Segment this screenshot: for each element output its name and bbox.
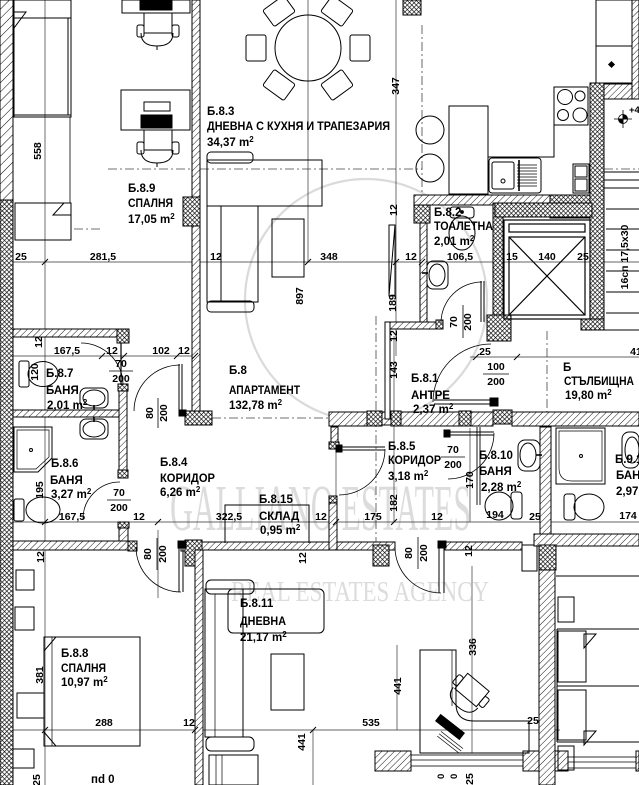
bath middle wall y410 bbox=[13, 410, 119, 417]
svg-text:167,5: 167,5 bbox=[54, 345, 80, 357]
svg-text:Б.8.6: Б.8.6 bbox=[51, 458, 78, 470]
svg-text:200: 200 bbox=[112, 373, 130, 385]
line under B9 bath bbox=[556, 575, 639, 577]
svg-text:535: 535 bbox=[362, 717, 380, 729]
dim row 3 y522 bbox=[0, 521, 639, 523]
svg-text:Б.8.8: Б.8.8 bbox=[61, 648, 89, 660]
monitor bottom-right bbox=[436, 715, 465, 740]
dim vertical x397 (441 right) bbox=[396, 645, 398, 730]
pier at bedroom2 door bbox=[128, 541, 137, 551]
svg-text:70: 70 bbox=[447, 444, 459, 456]
svg-text:170: 170 bbox=[464, 471, 476, 489]
outer left wall (concrete, dark) bbox=[0, 200, 13, 785]
kitchen corner black C13 bbox=[550, 195, 604, 218]
svg-text:2,37 m2: 2,37 m2 bbox=[413, 402, 454, 416]
chair 2 bbox=[144, 130, 172, 150]
svg-text:16сп 17,5х30: 16сп 17,5х30 bbox=[619, 224, 631, 289]
radiator bbox=[389, 225, 395, 296]
svg-text:12: 12 bbox=[210, 251, 222, 263]
svg-text:12: 12 bbox=[405, 251, 417, 263]
svg-text:12: 12 bbox=[388, 204, 400, 216]
nightstands B.8.8 bbox=[15, 607, 34, 630]
svg-text:322,5: 322,5 bbox=[216, 511, 242, 523]
svg-text:12: 12 bbox=[463, 545, 475, 557]
svg-text:347: 347 bbox=[390, 77, 402, 95]
elevator left wall bbox=[493, 203, 503, 330]
dim row 2 y356 bbox=[0, 355, 200, 357]
svg-text:БАНЯ: БАНЯ bbox=[616, 470, 639, 482]
kitchen tall cabinet bbox=[449, 106, 488, 194]
svg-text:СТЪЛБИЩНА: СТЪЛБИЩНА bbox=[564, 376, 634, 388]
svg-text:19,80 m2: 19,80 m2 bbox=[565, 388, 612, 402]
svg-text:2,01 m2: 2,01 m2 bbox=[47, 398, 88, 412]
svg-text:41: 41 bbox=[630, 346, 639, 358]
bottom right window bbox=[568, 757, 636, 768]
axis line A4 (vertical x547) bbox=[546, 331, 548, 428]
svg-text:СПАЛНЯ: СПАЛНЯ bbox=[61, 663, 106, 675]
antre left thin wall bbox=[385, 322, 390, 419]
door D1 bedroom->bath B.8.7 bbox=[81, 343, 123, 385]
kitchen cabinet2 bbox=[573, 164, 589, 193]
elevator X box bbox=[509, 237, 585, 315]
svg-text:Б.8.5: Б.8.5 bbox=[388, 441, 416, 453]
svg-text:КОРИДОР: КОРИДОР bbox=[160, 473, 215, 485]
svg-text:ТОАЛЕТНА: ТОАЛЕТНА bbox=[434, 221, 493, 233]
svg-text:0,95 m2: 0,95 m2 bbox=[260, 523, 301, 537]
svg-text:БАНЯ: БАНЯ bbox=[50, 475, 83, 487]
sink B.8.2 bbox=[427, 261, 448, 289]
dim vertical x313 (441 left) bbox=[312, 730, 314, 785]
elevator bottom-left cap C11 bbox=[487, 315, 511, 341]
door D8 bedroom B.8.8 bbox=[178, 547, 180, 592]
elevator cab bbox=[504, 220, 590, 319]
dining table bbox=[275, 15, 341, 81]
corridor left wall x119 (segment 1) bbox=[119, 384, 127, 478]
svg-text:120: 120 bbox=[29, 363, 41, 381]
kitchen bottom wall y195 bbox=[414, 195, 604, 205]
svg-text:Б.8.11: Б.8.11 bbox=[240, 598, 274, 610]
svg-text:25: 25 bbox=[464, 773, 476, 785]
svg-text:195: 195 bbox=[34, 481, 46, 499]
corridor left wall x119 (segment 2, below door) bbox=[119, 522, 128, 550]
dim row 4 y730 bbox=[0, 729, 560, 731]
svg-text:25: 25 bbox=[479, 346, 491, 358]
svg-text:СКЛАД: СКЛАД bbox=[259, 511, 299, 523]
desk bottom-right room bbox=[420, 650, 529, 753]
svg-text:Б.8.9: Б.8.9 bbox=[128, 183, 155, 195]
livingroom2 top wall y542 (to skl wall) bbox=[202, 542, 329, 550]
svg-text:200: 200 bbox=[418, 544, 430, 562]
svg-text:12: 12 bbox=[133, 511, 145, 523]
toilet room top-left column C12 bbox=[414, 197, 430, 223]
svg-text:70: 70 bbox=[115, 358, 127, 370]
svg-text:0: 0 bbox=[449, 774, 460, 779]
svg-text:25: 25 bbox=[31, 774, 43, 785]
svg-text:106,5: 106,5 bbox=[447, 251, 473, 263]
svg-text:189: 189 bbox=[387, 294, 399, 312]
skl wall x329 bbox=[329, 496, 337, 550]
wall x539 bottom right vertical bbox=[539, 570, 555, 785]
svg-text:ДНЕВНА: ДНЕВНА bbox=[240, 616, 286, 628]
svg-text:200: 200 bbox=[110, 502, 128, 514]
axis line A1 (section, horizontal y169) bbox=[74, 25, 639, 552]
wardrobe bedroom1 bbox=[14, 0, 71, 117]
wall segment right of door D9 bbox=[445, 542, 522, 550]
svg-text:Б: Б bbox=[563, 362, 571, 374]
svg-text:21,17 m2: 21,17 m2 bbox=[240, 630, 287, 644]
column C2 (corridor corner) bbox=[185, 411, 212, 425]
bedroom bottom wall y329 bbox=[13, 329, 127, 337]
svg-text:441: 441 bbox=[296, 733, 308, 751]
svg-text:182: 182 bbox=[388, 494, 400, 512]
svg-text:288: 288 bbox=[95, 717, 113, 729]
svg-text:167,5: 167,5 bbox=[59, 511, 85, 523]
svg-text:12: 12 bbox=[315, 511, 327, 523]
outer left wall (brick hatch, top) bbox=[0, 0, 13, 200]
elevation mark +4 bbox=[614, 110, 632, 128]
stair treads bbox=[604, 172, 639, 330]
desk 2 bbox=[121, 90, 190, 130]
toilet B.8.7 bbox=[19, 361, 29, 387]
bath B.8.10 right wall x540 bbox=[540, 427, 551, 534]
door D4 corridor->B.8.5 zone bbox=[339, 446, 385, 448]
svg-text:174: 174 bbox=[619, 510, 637, 522]
bed B.8.8 bbox=[44, 637, 140, 746]
dim vertical x396 bbox=[395, 0, 397, 356]
svg-text:132,78 m2: 132,78 m2 bbox=[229, 398, 283, 412]
elevator bottom-right cap bbox=[581, 319, 604, 330]
svg-text:70: 70 bbox=[113, 487, 125, 499]
toilet B.8.6 bbox=[14, 499, 24, 521]
axis line A3 (vertical x376) bbox=[375, 316, 377, 552]
wall x195 bedroom2/livingroom2 bbox=[195, 550, 203, 785]
kitchen sink unit bbox=[489, 158, 541, 193]
svg-text:КОРИДОР: КОРИДОР bbox=[388, 455, 441, 467]
door D9 livingroom B.8.11 bbox=[438, 547, 440, 593]
svg-text:10,97 m2: 10,97 m2 bbox=[61, 675, 108, 689]
axis line A5 (horizontal y418) bbox=[212, 417, 329, 419]
svg-text:17,05 m2: 17,05 m2 bbox=[128, 212, 175, 226]
dresser bedroom1 bbox=[15, 203, 71, 240]
desk 1 bbox=[122, 0, 190, 13]
svg-text:80: 80 bbox=[144, 407, 156, 419]
toilet B.8.2 fixture bbox=[450, 207, 474, 218]
svg-text:15: 15 bbox=[506, 251, 518, 263]
svg-text:3,18 m2: 3,18 m2 bbox=[388, 469, 429, 483]
svg-text:АНТРЕ: АНТРЕ bbox=[411, 390, 450, 402]
column C7 bbox=[539, 545, 556, 570]
svg-text:25: 25 bbox=[577, 251, 589, 263]
door jamb white bbox=[181, 541, 186, 551]
svg-text:12: 12 bbox=[106, 345, 118, 357]
svg-text:БАНЯ: БАНЯ bbox=[46, 385, 79, 397]
svg-text:2,28 m2: 2,28 m2 bbox=[481, 480, 522, 494]
axis line A2 (vertical x422) bbox=[421, 25, 423, 196]
svg-text:12: 12 bbox=[33, 336, 45, 348]
svg-text:Б.8.2: Б.8.2 bbox=[434, 207, 461, 219]
tick marks bbox=[42, 259, 520, 733]
svg-text:Б.8: Б.8 bbox=[229, 365, 247, 377]
svg-text:+4: +4 bbox=[629, 105, 639, 116]
coffee table living room bbox=[272, 219, 304, 277]
top right corner band bbox=[604, 84, 639, 99]
elevator top wall bbox=[495, 203, 592, 217]
sink B.8.6 bbox=[80, 419, 108, 439]
svg-text:441: 441 bbox=[392, 677, 404, 695]
central wall band y412 bbox=[329, 412, 367, 426]
pier C6 bbox=[373, 545, 389, 566]
toilet B.8.10 bbox=[511, 492, 522, 519]
sink B.8.10 bbox=[518, 440, 540, 471]
toilet room bottom wall y322 bbox=[390, 322, 443, 329]
outer right wall top bbox=[632, 0, 639, 99]
door D3 corridor->bath B.8.6 bbox=[83, 482, 120, 519]
svg-text:ДНЕВНА С КУХНЯ И ТРАПЕЗАРИЯ: ДНЕВНА С КУХНЯ И ТРАПЕЗАРИЯ bbox=[207, 121, 390, 133]
kitchen right wall C16 bbox=[590, 83, 604, 330]
chair 1 bbox=[144, 13, 172, 33]
shower B.9 bath bbox=[556, 428, 605, 484]
bed bottom-right room bbox=[557, 628, 639, 630]
svg-text:Б.8.1: Б.8.1 bbox=[411, 373, 439, 385]
column C5 bbox=[185, 540, 202, 566]
dim vertical x288? skl edges bbox=[335, 449, 337, 522]
svg-text:897: 897 bbox=[294, 287, 306, 305]
svg-text:6,26 m2: 6,26 m2 bbox=[160, 485, 201, 499]
dim row 1 y262 bbox=[0, 261, 639, 263]
door D7 apartment entrance bbox=[434, 399, 491, 401]
dot marker top right bbox=[608, 61, 615, 68]
small rect top-left bedroom2 bbox=[16, 570, 34, 590]
dim vertical x470 (bath 170) bbox=[469, 428, 471, 522]
svg-text:БАНЯ: БАНЯ bbox=[479, 466, 512, 478]
svg-text:348: 348 bbox=[320, 251, 338, 263]
svg-text:336: 336 bbox=[467, 638, 479, 656]
svg-text:Б.8.7: Б.8.7 bbox=[46, 368, 73, 380]
svg-text:25: 25 bbox=[529, 511, 541, 523]
svg-text:12: 12 bbox=[388, 330, 400, 342]
kitchen stools bbox=[416, 116, 444, 144]
column C1 bbox=[183, 197, 200, 226]
dim vertical x158 (bedroom door) bbox=[157, 530, 159, 598]
svg-text:34,37 m2: 34,37 m2 bbox=[207, 135, 254, 149]
bedroom2 top wall y541 bbox=[13, 541, 136, 550]
B.9 bath bottom wall bbox=[534, 534, 639, 546]
svg-text:200: 200 bbox=[444, 459, 462, 471]
bottom wall of B.8.11: pier bbox=[375, 751, 411, 771]
svg-text:Б.9.1: Б.9.1 bbox=[615, 454, 639, 466]
top-right rooms bbox=[556, 0, 639, 576]
svg-text:175: 175 bbox=[364, 511, 382, 523]
nightstands bottom-right bbox=[558, 597, 574, 622]
door D6 toilet B.8.2 bbox=[480, 281, 482, 322]
axis short segment left bbox=[74, 228, 103, 230]
svg-text:Б.8.10: Б.8.10 bbox=[479, 450, 513, 462]
dining chairs bbox=[246, 0, 370, 101]
dim vertical x472 (336) bbox=[471, 566, 473, 753]
svg-text:2,01 m2: 2,01 m2 bbox=[434, 234, 475, 248]
svg-text:Б.8.3: Б.8.3 bbox=[207, 106, 234, 118]
svg-text:25: 25 bbox=[527, 715, 539, 727]
B.8.5 wall x331 upper bbox=[331, 427, 338, 449]
svg-text:Б.8.4: Б.8.4 bbox=[160, 457, 188, 469]
svg-text:70: 70 bbox=[448, 316, 460, 328]
svg-text:Б.8.15: Б.8.15 bbox=[259, 494, 293, 506]
svg-text:143: 143 bbox=[388, 361, 400, 379]
sink B.9 bath bbox=[622, 432, 639, 468]
svg-text:194: 194 bbox=[486, 509, 504, 521]
storage closet B.8.15 thin box bbox=[225, 505, 309, 543]
svg-text:25: 25 bbox=[15, 251, 27, 263]
toilet B.9 bath bbox=[564, 494, 575, 520]
toilet room left wall x420 bbox=[420, 223, 427, 322]
kitchen counter edge bbox=[488, 87, 554, 157]
svg-text:12: 12 bbox=[35, 551, 47, 563]
svg-text:12: 12 bbox=[431, 511, 443, 523]
watermark circle bbox=[245, 179, 487, 421]
svg-text:12: 12 bbox=[297, 552, 309, 564]
svg-text:3,27 m2: 3,27 m2 bbox=[51, 487, 92, 501]
svg-text:АПАРТАМЕНТ: АПАРТАМЕНТ bbox=[229, 385, 300, 397]
tv stand B.8.11 bbox=[209, 755, 258, 785]
svg-text:12: 12 bbox=[183, 717, 195, 729]
bottom window B.8.11 bbox=[411, 755, 523, 766]
shower B.8.6 bbox=[14, 427, 52, 472]
svg-text:281,5: 281,5 bbox=[90, 251, 116, 263]
svg-text:пd 0: пd 0 bbox=[91, 774, 115, 785]
sofa B.8.11 bbox=[206, 580, 254, 594]
svg-text:100: 100 bbox=[487, 361, 505, 373]
svg-text:558: 558 bbox=[32, 142, 44, 160]
dim vertical x45 bbox=[44, 0, 46, 785]
svg-text:GALLIANO ESTATES: GALLIANO ESTATES bbox=[170, 472, 471, 545]
sink B.8.7 bbox=[80, 388, 108, 408]
door D5 B.8.5->B.8.10 bbox=[447, 431, 494, 433]
white pier bbox=[522, 545, 537, 571]
svg-text:200: 200 bbox=[158, 404, 170, 422]
kitchen stove bbox=[554, 87, 588, 125]
sofa living room bbox=[207, 152, 253, 163]
thin partition B.8.5/B.8.10 bbox=[477, 427, 480, 505]
svg-text:102: 102 bbox=[152, 345, 170, 357]
svg-text:СПАЛНЯ: СПАЛНЯ bbox=[128, 198, 173, 210]
office chair bottom-right bbox=[443, 669, 494, 719]
svg-text:140: 140 bbox=[538, 251, 556, 263]
svg-text:200: 200 bbox=[157, 545, 169, 563]
svg-text:80: 80 bbox=[403, 547, 415, 559]
svg-text:0: 0 bbox=[436, 774, 447, 779]
svg-text:200: 200 bbox=[462, 313, 474, 331]
dim vertical x394 (antre) bbox=[393, 336, 395, 522]
coffee table B.8.11 bbox=[271, 654, 304, 710]
wall bedroom/living x192 bbox=[192, 0, 200, 411]
svg-text:381: 381 bbox=[34, 666, 46, 684]
cap at bath door bbox=[117, 329, 129, 343]
top shear wall stub bbox=[403, 0, 421, 15]
svg-text:80: 80 bbox=[142, 548, 154, 560]
door D2 vestibule->corridor bbox=[134, 365, 180, 411]
svg-text:12: 12 bbox=[178, 345, 190, 357]
svg-text:200: 200 bbox=[487, 376, 505, 388]
dim vertical x308 bbox=[307, 0, 309, 262]
elevator door bar bbox=[509, 224, 585, 232]
svg-text:2,97 м: 2,97 м bbox=[616, 486, 639, 498]
